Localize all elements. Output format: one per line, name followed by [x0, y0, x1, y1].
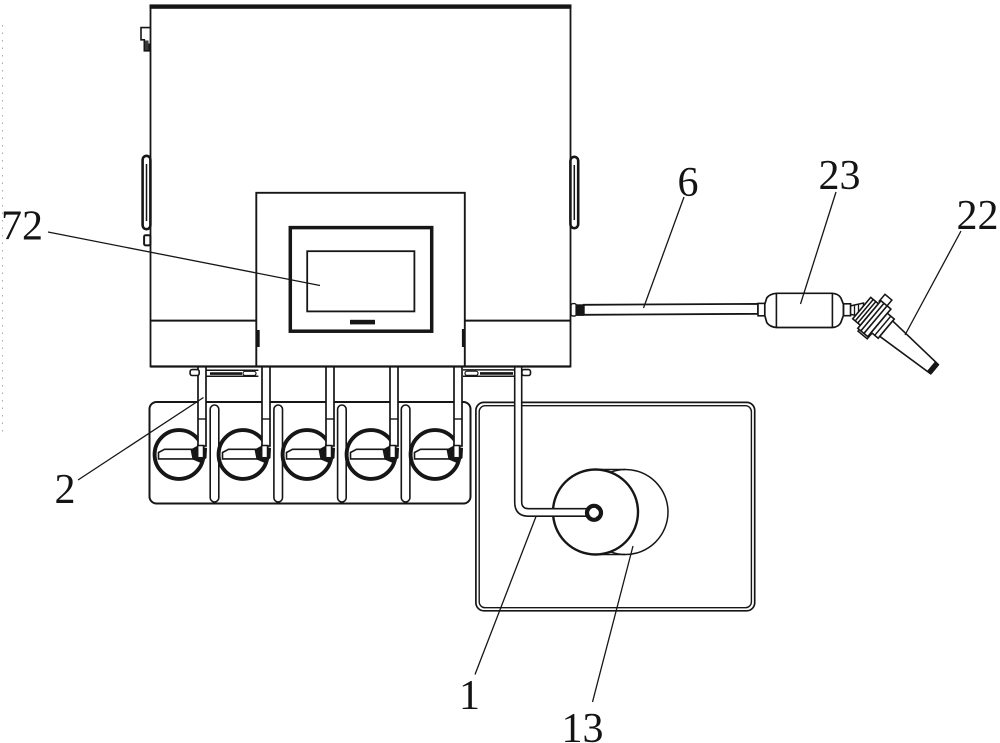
- pump units: [155, 367, 463, 479]
- tangent top: [596, 469, 626, 471]
- svg-text:2: 2: [55, 467, 76, 513]
- tube 6: [584, 304, 758, 315]
- leader line 13: [593, 546, 634, 702]
- pump unit 3: horizontal bar: [287, 449, 323, 459]
- pump unit 1: loop ring: [155, 430, 204, 479]
- roller back circle: [583, 470, 668, 555]
- neck: [851, 303, 864, 317]
- svg-text:13: 13: [562, 706, 604, 743]
- capsule 23: [765, 293, 844, 327]
- pump unit 1: drop tube: [198, 367, 206, 447]
- leader line 72: [48, 232, 320, 286]
- pump unit 3: elbow joint: [319, 446, 336, 463]
- svg-text:22: 22: [957, 193, 999, 239]
- right handle: [570, 157, 578, 228]
- svg-text:72: 72: [1, 204, 43, 250]
- tangent bottom: [596, 554, 626, 556]
- pump unit 2: elbow joint: [255, 446, 272, 463]
- small square below left handle: [144, 235, 150, 245]
- monitor screen: [307, 251, 414, 311]
- bottles container: [150, 402, 471, 504]
- pump unit 5: elbow joint: [447, 446, 464, 463]
- roller front circle: [553, 470, 638, 555]
- black mark left panel edge: [257, 330, 260, 347]
- right tray: [463, 370, 515, 376]
- dividers: [210, 405, 219, 502]
- hub: [587, 506, 601, 520]
- svg-text:6: 6: [678, 160, 699, 206]
- left tray block: [190, 370, 199, 376]
- leader line 6: [644, 197, 685, 308]
- pump unit 1: tube lower end: [198, 446, 204, 458]
- pump unit 1: tube joint tick: [198, 418, 206, 420]
- pump unit 1: horizontal bar: [159, 449, 195, 459]
- svg-text:1: 1: [459, 673, 480, 719]
- pump unit 2: loop ring: [219, 430, 268, 479]
- left tray: [207, 370, 259, 376]
- pump unit 2: drop tube: [262, 367, 270, 447]
- pump unit 4: loop ring: [347, 430, 396, 479]
- pump unit 3: loop ring: [283, 430, 332, 479]
- monitor bezel: [290, 228, 431, 332]
- pump unit 4: elbow joint: [383, 446, 400, 463]
- thick top edge of housing: [150, 4, 572, 8]
- pump unit 5: drop tube: [454, 367, 462, 447]
- inner control panel: [256, 193, 465, 367]
- horizontal division line right: [465, 320, 571, 322]
- collar right of capsule: [844, 304, 851, 316]
- leader line 22: [905, 231, 961, 335]
- nozzle assembly 22 (rotated): [849, 289, 952, 386]
- pipe 1: [515, 367, 588, 517]
- liquid tank 13 : outer: [476, 402, 755, 610]
- pump unit 3: drop tube: [326, 367, 334, 447]
- connector black square: [575, 304, 583, 316]
- leader line 1: [475, 517, 536, 675]
- leader line 23: [801, 192, 837, 304]
- pump unit 5: loop ring: [411, 430, 460, 479]
- pump unit 2: tube joint tick: [262, 418, 270, 420]
- pump unit 2: tube lower end: [262, 446, 268, 458]
- pump unit 4: horizontal bar: [351, 449, 387, 459]
- pump unit 4: drop tube: [390, 367, 398, 447]
- pump unit 3: tube lower end: [326, 446, 332, 458]
- pump unit 4: tube joint tick: [390, 418, 398, 420]
- pump unit 1: elbow joint: [191, 446, 208, 463]
- housing bottom edge redraw: [151, 365, 571, 367]
- right tray block: [522, 370, 531, 376]
- svg-text:23: 23: [819, 153, 861, 199]
- pump unit 2: horizontal bar: [223, 449, 259, 459]
- left handle: [143, 156, 151, 229]
- black mark right panel edge: [462, 329, 465, 347]
- pump unit 5: tube lower end: [454, 446, 460, 458]
- collar left of capsule: [758, 303, 765, 315]
- top-left tab: [141, 28, 151, 51]
- liquid tank 13 : inner: [479, 406, 751, 608]
- leader line 2: [78, 398, 204, 481]
- pump unit 5: horizontal bar: [415, 449, 451, 459]
- pump unit 4: tube lower end: [390, 446, 396, 458]
- button bar: [350, 320, 375, 325]
- pump unit 5: tube joint tick: [454, 418, 462, 420]
- scan artifact dotted line: [2, 25, 4, 435]
- main housing box: [151, 7, 571, 367]
- horizontal division line left: [151, 320, 257, 322]
- pump unit 3: tube joint tick: [326, 418, 334, 420]
- connector white cap on box edge: [571, 304, 576, 316]
